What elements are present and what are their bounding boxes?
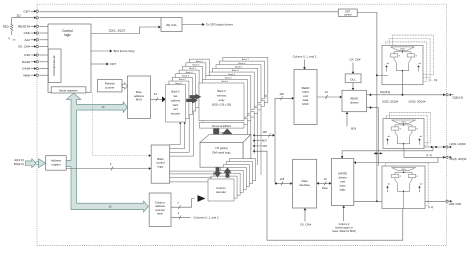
svg-text:memory: memory	[217, 94, 227, 98]
READ FIFO and data MUX	[294, 70, 317, 125]
svg-text:13: 13	[154, 92, 157, 96]
svg-text:VDDQ: VDDQ	[401, 169, 406, 171]
bank 1 column decoder	[211, 176, 237, 198]
svg-text:MUX: MUX	[136, 98, 142, 102]
wire tee vertical	[274, 98, 276, 183]
svg-text:BC4: BC4	[351, 126, 357, 130]
wire BC4 into READ drivers	[346, 114, 348, 127]
wire BC4 into I/O gating	[254, 140, 261, 142]
svg-text:sw2: sw2	[419, 183, 422, 185]
bank 1 sense amplifiers	[203, 119, 248, 125]
pin LDM, UDM	[446, 200, 448, 203]
svg-text:V: V	[8, 36, 10, 40]
row address MUX	[128, 76, 151, 119]
svg-text:BA[2:0]: BA[2:0]	[14, 162, 24, 166]
svg-text:DM mask logic: DM mask logic	[212, 150, 231, 154]
bank 5 sense amplifiers	[217, 104, 262, 110]
I/O gating / DM mask logic	[200, 134, 251, 142]
data interface	[293, 159, 317, 208]
teal address bus trunk	[66, 93, 148, 212]
wires bank sense amps down to I/O gating	[246, 124, 248, 151]
svg-text:sw1: sw1	[386, 63, 389, 65]
address register	[46, 156, 66, 171]
bank control logic	[151, 145, 170, 183]
svg-text:Data: Data	[322, 186, 328, 190]
svg-text:sw2: sw2	[419, 136, 422, 138]
svg-text:logic: logic	[64, 33, 71, 37]
ground VSS	[11, 31, 13, 35]
svg-text:logic: logic	[340, 188, 346, 192]
svg-text:DQ[15:0]: DQ[15:0]	[380, 91, 390, 94]
bank 4 memory array	[213, 68, 258, 106]
wire DQ data bus	[367, 94, 446, 96]
wire DLL to READ drivers	[352, 83, 354, 88]
wire UDQS line	[403, 144, 405, 149]
svg-text:ZQ CAL: ZQ CAL	[166, 23, 177, 27]
svg-text:128: 128	[280, 177, 285, 181]
wire 128-bit bus I/O gating to tee	[254, 134, 272, 136]
pin UDQS, UDQS#	[443, 156, 445, 159]
bank 2 sense amplifiers	[206, 115, 251, 121]
svg-text:array: array	[219, 98, 226, 102]
svg-text:(1, 2): (1, 2)	[428, 207, 434, 209]
svg-text:latch: latch	[157, 212, 163, 216]
svg-text:(select upper or: (select upper or	[335, 226, 353, 229]
svg-text:ODT: ODT	[262, 145, 268, 148]
svg-text:and: and	[173, 107, 178, 111]
bank 5 row-address latch and decoder	[183, 66, 203, 103]
bank 2 row-address latch and decoder	[172, 77, 192, 114]
wire READ drivers to DQS drivers	[367, 107, 379, 109]
wire RAS# into control logic	[39, 61, 48, 63]
wire write data path U (I/O gating to input receivers)	[254, 151, 403, 240]
refresh counter	[98, 80, 123, 92]
wire address register to bank control, 3	[66, 168, 149, 170]
wire ZQ CAL output: To ODT/output drivers	[182, 24, 202, 26]
DLL	[345, 74, 361, 83]
svg-text:sw2: sw2	[418, 63, 421, 65]
bank 3 column decoder	[217, 170, 243, 192]
bank 5 memory array	[216, 65, 261, 103]
svg-text:RZQ: RZQ	[3, 25, 10, 29]
bank 1 row-address latch and decoder	[169, 81, 189, 118]
wire ODT into I/O gating	[254, 145, 261, 147]
wire ZQ to RZQ	[12, 17, 34, 19]
svg-text:(1, 2): (1, 2)	[426, 155, 432, 157]
bank control fan to column decoders	[170, 170, 217, 172]
wire data interface <-> WRITE drivers, 16 Data	[317, 182, 332, 184]
svg-text:CAS#: CAS#	[22, 67, 30, 71]
svg-text:VDDQ: VDDQ	[400, 49, 405, 51]
wire ODT control to driver stacks	[357, 13, 377, 202]
svg-text:Column-: Column-	[155, 200, 165, 204]
wire row MUX to bank row latches, 13	[151, 98, 163, 100]
svg-text:CS#: CS#	[24, 53, 30, 57]
svg-text:and: and	[340, 180, 345, 184]
wire 128 to READ FIFO	[275, 97, 292, 99]
bank 6 memory array	[219, 61, 264, 99]
svg-text:Command decode: Command decode	[52, 55, 56, 76]
bank 7 memory array	[223, 57, 268, 95]
svg-text:lower nibble for BC8): lower nibble for BC8)	[332, 230, 356, 233]
svg-text:WRITE: WRITE	[338, 172, 347, 176]
svg-text:CK, CK#: CK, CK#	[300, 223, 311, 227]
svg-text:counter: counter	[105, 85, 114, 89]
wire ZQ pin to ZQ CAL	[39, 17, 161, 19]
svg-text:control: control	[344, 13, 352, 16]
wire ODT output	[91, 63, 106, 65]
DQ output drivers / ODT stack	[393, 35, 434, 74]
svg-text:DQ[15:0]: DQ[15:0]	[453, 96, 464, 100]
command decode	[48, 49, 61, 82]
DQS output drivers stack	[389, 112, 430, 142]
bank 7 row-address latch and decoder	[189, 59, 209, 96]
WRITE drivers and input logic	[331, 159, 353, 206]
svg-text:RESET#: RESET#	[18, 25, 30, 29]
bank 4 row-address latch and decoder	[179, 70, 199, 107]
svg-text:(1 ... 16): (1 ... 16)	[429, 80, 438, 82]
bank 7 sense amplifiers	[223, 97, 267, 103]
wire DM line to WRITE drivers	[354, 200, 382, 202]
wire driver output to DQ line	[402, 71, 404, 95]
wire CAS# into control logic	[39, 68, 48, 70]
bank 2 column decoder	[214, 173, 240, 195]
wire ODT pin to ODT control	[39, 11, 338, 13]
bank 0 memory array	[199, 83, 244, 121]
bank 5 column decoder	[223, 165, 249, 187]
svg-text:Bank 0: Bank 0	[217, 89, 226, 93]
svg-text:register: register	[51, 163, 60, 167]
svg-text:CK, CK#: CK, CK#	[350, 58, 361, 62]
wire READ FIFO to READ drivers, 16	[317, 96, 340, 98]
svg-text:BC4: BC4	[262, 140, 267, 143]
svg-text:sw1: sw1	[387, 183, 390, 185]
resistor RZQ (external, to VSS)	[11, 18, 13, 24]
svg-text:ODT: ODT	[110, 62, 116, 66]
bank 2 memory array	[206, 76, 251, 114]
wire A12 into control logic	[39, 39, 48, 41]
svg-text:address: address	[171, 98, 181, 102]
svg-text:Column 2: Column 2	[339, 223, 350, 226]
svg-text:Column 0, 1, and 2: Column 0, 1, and 2	[293, 55, 317, 59]
wire CK into DLL	[352, 63, 354, 72]
svg-text:LDQS, LDQS#: LDQS, LDQS#	[382, 101, 399, 104]
svg-text:ODT: ODT	[23, 9, 30, 13]
wire RESET# into control logic	[39, 25, 48, 27]
bank 3 memory array	[209, 72, 254, 110]
svg-text:RAS#: RAS#	[22, 60, 30, 64]
READ drivers	[342, 90, 367, 111]
bank 6 row-address latch and decoder	[186, 63, 206, 100]
svg-text:128: 128	[262, 130, 267, 134]
teal branch to row address MUX, 14	[77, 102, 128, 112]
ZQ CAL block	[161, 18, 182, 32]
bank 3 sense amplifiers	[210, 111, 255, 117]
svg-text:Mode registers: Mode registers	[59, 88, 78, 92]
wire BC4 (burst chop) output	[91, 50, 110, 52]
svg-text:Sense amplifiers: Sense amplifiers	[212, 124, 232, 128]
node I/O gating data bus taps	[253, 134, 255, 136]
svg-text:CKE: CKE	[24, 31, 30, 35]
wire 128 to data interface	[275, 183, 290, 185]
svg-text:decoder: decoder	[216, 190, 226, 194]
svg-text:sw1: sw1	[387, 136, 390, 138]
pin LDQS, LDQS#	[443, 146, 445, 149]
wire LDQS line	[424, 146, 446, 148]
dotted wire control logic to bank control	[92, 93, 149, 156]
svg-text:input: input	[340, 184, 346, 188]
svg-text:latch: latch	[173, 103, 179, 107]
svg-text:ZQCL, ZQCS: ZQCL, ZQCS	[109, 29, 126, 33]
svg-text:address: address	[155, 204, 165, 208]
mode registers	[51, 87, 86, 93]
wire ZQCL, ZQCS from control logic to ZQ CAL	[91, 27, 159, 34]
svg-text:A12: A12	[24, 38, 30, 42]
bank 0 sense amplifiers	[200, 122, 245, 128]
arrows row latches to memory arrays	[190, 94, 202, 100]
svg-text:Bank 0: Bank 0	[172, 90, 181, 94]
svg-text:WE#: WE#	[23, 73, 30, 77]
svg-text:UDQS, UDQS#: UDQS, UDQS#	[450, 158, 467, 161]
mask logic / input receivers stack	[385, 163, 428, 206]
svg-text:LDQS, LDQS#: LDQS, LDQS#	[450, 143, 467, 146]
bank 3 row-address latch and decoder	[176, 74, 196, 111]
wire ODT feed into DQS driver	[374, 152, 384, 154]
wire ODT feed into DQ driver	[377, 74, 388, 76]
svg-text:decoder: decoder	[171, 112, 180, 116]
wire CKE into control logic	[39, 32, 48, 34]
wire DQ input to WRITE right	[356, 162, 438, 164]
svg-text:MUX: MUX	[302, 102, 308, 106]
svg-text:drivers: drivers	[338, 176, 347, 180]
gray arrows sense amps to I/O gating	[210, 129, 222, 142]
bank 0 column decoder	[208, 179, 234, 201]
svg-text:(8192 x 128 x 128): (8192 x 128 x 128)	[212, 104, 231, 106]
svg-text:DLL: DLL	[351, 78, 357, 82]
bank 0 row-address latch and decoder	[166, 85, 186, 122]
wire column counter to column decoder, 7	[171, 199, 195, 208]
svg-text:LDM, UDM: LDM, UDM	[449, 203, 461, 206]
svg-text:BC4 (burst chop): BC4 (burst chop)	[114, 49, 135, 53]
svg-text:I/O gating: I/O gating	[215, 146, 228, 150]
pin DQ[15:0]	[443, 93, 445, 96]
svg-text:128: 128	[279, 92, 284, 96]
svg-text:drivers: drivers	[350, 101, 359, 105]
svg-text:counter/: counter/	[155, 208, 165, 212]
control logic U1	[48, 24, 91, 92]
svg-text:To ODT/output drivers: To ODT/output drivers	[206, 23, 234, 27]
teal address input arrow	[26, 159, 37, 168]
bank control fan to row latches	[170, 122, 181, 145]
bank 1 memory array	[202, 79, 247, 117]
wire WE# into control logic	[39, 74, 48, 76]
svg-text:CK, CK#: CK, CK#	[18, 45, 30, 49]
column address counter / latch	[149, 193, 171, 227]
wire columns 0,1,2 output, 3	[171, 216, 191, 218]
bank 6 column decoder	[226, 162, 252, 184]
hollow arrow refresh counter to row MUX	[122, 83, 127, 90]
svg-text:Columns 0, 1, and 2: Columns 0, 1, and 2	[194, 216, 219, 220]
ODT control block	[338, 9, 357, 17]
wire CS# into control logic	[39, 54, 48, 56]
svg-text:interface: interface	[299, 183, 310, 187]
svg-text:row-: row-	[173, 94, 178, 98]
bank 6 sense amplifiers	[220, 101, 265, 107]
bank 4 column decoder	[220, 167, 246, 189]
bank 7 column decoder	[229, 159, 255, 181]
bank 4 sense amplifiers	[213, 108, 258, 114]
svg-text:logic: logic	[158, 164, 164, 168]
gray arrows I/O gating to column decoders	[214, 167, 222, 177]
wire CK, CK# into control logic	[39, 46, 48, 48]
wire DQS input to WRITE top	[342, 151, 433, 157]
svg-text:UDQS, UDQS#: UDQS, UDQS#	[409, 101, 426, 104]
wire DM pin line	[425, 200, 446, 202]
svg-text:VDDQ: VDDQ	[401, 122, 406, 124]
